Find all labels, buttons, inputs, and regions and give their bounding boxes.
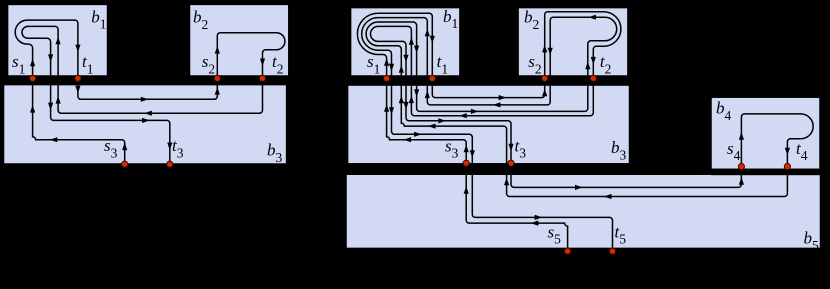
arrow left on s5-s3 wire [531,221,539,226]
arrow down into t3 [167,143,172,151]
arrow down below winding D [403,102,408,110]
terminal t4 (right) [784,163,790,169]
wire riser to G inner P-hook (right b2) [550,17,616,80]
arrow down into t1 [75,45,80,53]
arrow left on s3-s1 wire [50,137,58,142]
box b3 (right) [348,85,630,164]
arrow down G leg in b2 [548,48,553,56]
terminal s3 (left) [122,161,128,167]
terminal s2 (right) [542,75,548,81]
wire t1 to s2 (left b3) [78,78,217,99]
box b3 (left) [4,85,287,164]
terminal t5 (right) [609,248,615,254]
arrow down into t4 [785,148,790,156]
wire t2 to inner hook (left b3) [58,78,262,113]
terminal s5 (right) [565,248,571,254]
arrow up winding D riser [409,37,414,45]
arrow left on s3-s1 wire (right) [404,137,412,142]
box b5 (right) [346,174,821,248]
arrow up s1 (right b1) [384,58,389,66]
arrow up above s4 [739,132,744,140]
wire b2 drop to winding B (right b3) [427,80,550,105]
wire s4-t4 hook (right b4) [741,114,813,167]
wire s3 to s1 (right b3) [387,78,467,163]
wire s2-t2 hook in b2 (left) [217,33,285,79]
arrow right on winding C wire [471,109,479,114]
terminal t1 (right) [429,75,435,81]
wire s1-t1 hook in b1 (left) [15,20,78,78]
terminal t3 (left) [167,161,173,167]
wire t3 to s4 (right b5) [511,163,741,187]
arrow right on t3-s4 wire [575,185,583,190]
wire s3 to s1 (left b3) [33,78,125,164]
arrow left on inner hook top (right b2) [588,15,596,20]
arrow down below winding B [389,107,394,115]
arrow right on t3 wire [142,118,150,123]
arrow down below hook leg [48,103,53,111]
box b1 (right) [351,8,460,76]
box b4 (right) [711,97,820,169]
arrow right on t3 wire (right) [438,118,446,123]
arrow up inner riser in b2 [585,62,590,70]
arrow down below winding C2 [414,89,419,97]
box b2 (right) [518,8,628,76]
thick boundary bar between b1,b2 and b3 (left) [4,76,289,85]
arrow down winding B leg [389,64,394,72]
terminal s2 (left) [214,75,220,81]
arrow up below s2 [215,87,220,95]
wire winding D (right b1) [371,26,412,80]
arrow right on b5-drop wire [414,132,422,137]
arrow up inner hook leg [56,37,61,45]
thick bar between b3 and b5 (right) [346,164,700,175]
wire s2 to t2 outer P-hook (right b2) [545,12,621,79]
terminal s1 (left) [29,75,35,81]
arrow down winding D leg [403,55,408,63]
arrow left on t2 wire [144,111,152,116]
arrow right on t1-s2 wire (right) [499,95,507,100]
arrow up into s1 above bar [30,59,35,67]
wire winding B drop to b5 (right b3) [392,80,473,176]
arrow down winding C leg2 [414,46,419,54]
arrow up feed s2 (right) [542,89,547,97]
arrow up above s2 in b2 (right) [542,45,547,53]
arrow up below winding C [399,96,404,104]
terminal t2 (left) [259,75,265,81]
arrow up above s3 [122,143,127,151]
arrow up below winding D riser [409,96,414,104]
terminal t3 (right) [508,160,514,166]
arrow down into t2 in b2 (right) [591,57,596,65]
arrow right on t1-s2 wire [141,97,149,102]
wire t2 to winding D (right b3) [411,78,593,115]
wire winding D to t3 (right b3) [406,80,511,163]
arrow down into t1 (right) [430,36,435,44]
thick bar between b1,b2 and b3 (right) [348,76,630,86]
wire winding A s1-t1 (right b1) [357,13,432,78]
arrow up above s3 (right) [464,145,469,153]
wire s5 to s3 (right b5) [466,163,567,251]
arrow up below winding B riser [425,91,430,99]
arrow up below s4 in b5 [739,177,744,185]
arrow up below s1 [30,105,35,113]
box b2 (left) [190,4,289,76]
wire t4 to b3 riser (right b5) [507,167,788,197]
arrow down in b2 into t2 [260,59,265,67]
arrow down below t1 [75,86,80,94]
wire drop to t5 (right b5) [472,176,612,251]
terminal s4 (right) [738,163,744,169]
wire hook to t3 (left b3) [51,80,170,164]
wire t1 to s2 (right b3) [432,78,544,97]
arrow left on t4 wire [604,194,612,199]
arrow down into t3 (right) [508,144,513,152]
wire winding C (right b1) [366,22,417,80]
arrow down on drop to b5 [470,150,475,158]
terminal s1 (right) [384,75,390,81]
arrow up below inner leg [56,96,61,104]
wire winding C to b2 inner (right b3) [417,80,588,111]
arrow up b5 riser [504,178,509,186]
arrow left on G wire [493,102,501,107]
arrow up below s1 (right) [384,104,389,112]
arrow left on t2 wire (right) [459,113,467,118]
arrow right on t5 wire [535,215,543,220]
arrow up below s3 in b5 [464,186,469,194]
arrow up winding C leg [399,65,404,73]
arrow left on riser wire [428,124,436,129]
thick bar between b4 and b5 (right) [711,169,821,175]
wire b5 riser to winding C (right b3) [401,80,506,176]
arrow up winding B riser [425,29,430,37]
arrow down on hook leg [48,54,53,62]
box b1 (left) [8,4,108,76]
wire inner hook in b1 (left) [22,26,58,80]
terminal t2 (right) [590,75,596,81]
terminal s3 (right) [463,160,469,166]
arrow up in b2 above s2 [215,46,220,54]
terminal t1 (left) [75,75,81,81]
wire winding B (right b1) [362,18,428,80]
